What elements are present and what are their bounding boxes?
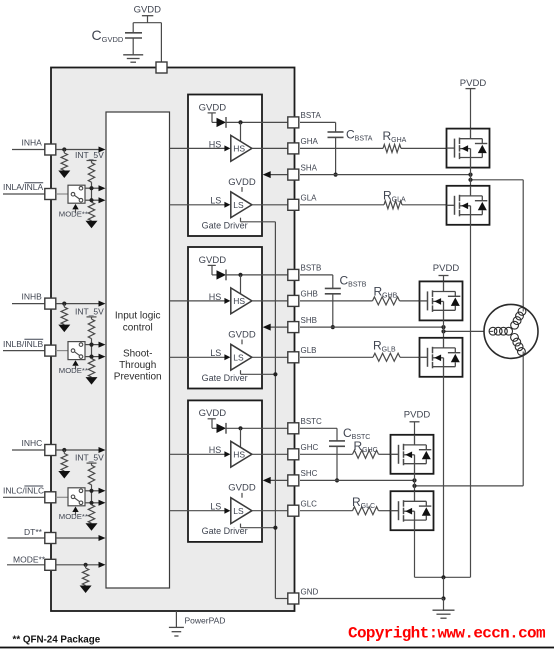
svg-text:INHA: INHA	[22, 137, 43, 147]
resistor RGLA	[300, 204, 384, 206]
wire BSTC	[300, 427, 337, 429]
wire INLC to mode switch	[56, 496, 68, 498]
svg-text:PowerPAD: PowerPAD	[185, 616, 226, 626]
svg-text:HS: HS	[233, 450, 245, 460]
svg-text:INHB: INHB	[22, 291, 43, 301]
wire INLB switch lower out	[85, 356, 100, 358]
svg-text:Gate Driver: Gate Driver	[202, 373, 248, 383]
capacitor CBSTA	[335, 122, 337, 132]
svg-text:SHC: SHC	[301, 469, 318, 478]
svg-text:DT**: DT**	[24, 527, 43, 537]
resistor RGHB	[300, 300, 373, 302]
bottom border line	[0, 647, 554, 649]
resistor pull-up INT_5V	[87, 462, 97, 464]
svg-text:GLB: GLB	[301, 346, 317, 355]
LS buffer C	[231, 498, 252, 524]
svg-text:PVDD: PVDD	[404, 410, 431, 421]
wire INLA switch lower out	[85, 199, 100, 201]
wire GHC output	[252, 453, 289, 455]
svg-text:GVDD: GVDD	[199, 408, 227, 419]
capacitor CGVDD	[125, 32, 142, 34]
power MOSFET high-side A	[447, 129, 490, 168]
ground arrow	[86, 523, 98, 531]
motor winding bottom-right	[511, 334, 519, 342]
wire FET A source to SHA	[470, 168, 472, 186]
motor winding top-right	[511, 321, 519, 329]
wire INHC to logic	[56, 449, 100, 451]
ground arrow	[58, 471, 70, 479]
wire FET C low source to gnd bus	[414, 530, 416, 577]
svg-text:LS: LS	[233, 200, 244, 210]
wire GHA output	[252, 147, 289, 149]
svg-text:GVDD: GVDD	[228, 483, 256, 494]
svg-text:INLB/INLB: INLB/INLB	[3, 339, 43, 349]
svg-text:INHC: INHC	[22, 438, 43, 448]
wire LS return A	[240, 218, 242, 222]
capacitor CBSTC	[336, 428, 338, 441]
wire INLB switch upper out	[85, 344, 100, 346]
svg-text:control: control	[123, 323, 153, 334]
wire LS input	[170, 204, 225, 206]
wire GVDD supply	[147, 16, 149, 23]
svg-text:LS: LS	[233, 506, 244, 516]
power MOSFET high-side C	[391, 435, 434, 474]
svg-text:Input logic: Input logic	[115, 311, 161, 322]
resistor pull-down INHB	[63, 304, 65, 308]
HS buffer C	[231, 441, 252, 467]
svg-text:GVDD: GVDD	[134, 5, 162, 16]
svg-text:Through: Through	[119, 360, 156, 371]
wire INLB to mode switch	[56, 350, 68, 352]
svg-text:LS: LS	[233, 353, 244, 363]
svg-text:GVDD: GVDD	[228, 329, 256, 340]
wire BSTA from diode	[226, 121, 289, 123]
ground arrow	[86, 221, 98, 229]
wire FET B low source to gnd bus	[443, 377, 445, 578]
wire GLA output	[252, 204, 289, 206]
wire SHC sense into driver	[271, 479, 290, 481]
capacitor CBSTB	[332, 275, 334, 289]
ground arrow	[58, 171, 70, 179]
wire INHB to logic	[56, 303, 100, 305]
wire FET C source to SHC	[414, 474, 416, 491]
gate driver block C	[188, 400, 262, 542]
pin GLB	[288, 352, 299, 363]
svg-text:INT_5V: INT_5V	[75, 150, 104, 160]
wire INLA switch upper out	[85, 187, 100, 189]
svg-text:PVDD: PVDD	[460, 78, 487, 89]
input logic control block	[106, 112, 170, 588]
wire phase A to motor	[471, 179, 524, 181]
pin GLC	[288, 505, 299, 516]
gate driver block A	[188, 95, 262, 237]
resistor pull-down	[88, 505, 94, 524]
wire PVDD	[414, 422, 416, 435]
bootstrap diode	[211, 419, 213, 429]
wire MODE to logic	[56, 564, 100, 566]
wire GHB output	[252, 300, 289, 302]
svg-text:MODE**: MODE**	[59, 512, 88, 521]
LS buffer B	[231, 344, 252, 370]
IC gate-driver body (QFN-24)	[51, 68, 295, 612]
svg-text:GLA: GLA	[301, 194, 318, 203]
svg-text:HS: HS	[233, 296, 245, 306]
mode control arrow	[72, 204, 78, 210]
svg-text:GND: GND	[301, 587, 319, 596]
wire PVDD	[470, 89, 472, 129]
svg-text:INT_5V: INT_5V	[75, 453, 104, 463]
svg-text:GHA: GHA	[301, 137, 319, 146]
wire BSTA	[300, 121, 336, 123]
mode select switch INLA	[68, 185, 85, 203]
resistor pull-down INHA	[63, 150, 65, 154]
ground arrow	[86, 377, 98, 385]
resistor pull-down	[88, 359, 94, 378]
wire SHA	[300, 174, 471, 176]
svg-text:GLC: GLC	[301, 500, 318, 509]
wire SHA sense into driver	[271, 174, 290, 176]
wire GND	[443, 577, 445, 598]
HS buffer A	[231, 135, 252, 161]
svg-text:Shoot-: Shoot-	[123, 349, 152, 360]
pin GLA	[288, 199, 299, 210]
ground arrow	[80, 586, 92, 594]
wire SHB	[300, 326, 444, 328]
PowerPAD ground	[175, 611, 177, 627]
pin SHA	[288, 169, 299, 180]
pin GVDD (IC top)	[156, 62, 167, 73]
wire INLC switch upper out	[85, 490, 100, 492]
pin BSTB	[288, 269, 299, 280]
motor winding left	[505, 327, 513, 335]
wire BSTB from diode	[226, 274, 289, 276]
HS buffer B	[231, 288, 252, 314]
pin BSTC	[288, 423, 299, 434]
resistor RGLC	[300, 510, 353, 512]
wire low-side sources common	[415, 576, 471, 578]
resistor pull-down INHC	[63, 450, 65, 454]
resistor RGHC	[300, 453, 353, 455]
wire phase B to motor	[444, 330, 490, 332]
wire HS input	[170, 453, 225, 455]
svg-text:Gate Driver: Gate Driver	[202, 526, 248, 536]
svg-text:GVDD: GVDD	[199, 255, 227, 266]
wire BSTC from diode	[226, 427, 289, 429]
ground	[123, 54, 143, 56]
bootstrap diode	[211, 113, 213, 123]
wire LS return B	[240, 370, 242, 374]
svg-text:INLC/INLC: INLC/INLC	[3, 486, 44, 496]
svg-text:INLA/INLA: INLA/INLA	[3, 182, 43, 192]
pin BSTA	[288, 117, 299, 128]
svg-text:INT_5V: INT_5V	[75, 306, 104, 316]
ground	[443, 599, 445, 610]
svg-text:BSTC: BSTC	[301, 417, 323, 426]
resistor pull-down	[88, 202, 94, 221]
mode select switch INLC	[68, 488, 85, 506]
wire SHC	[300, 479, 415, 481]
wire DT to logic	[56, 537, 100, 539]
svg-text:MODE**: MODE**	[13, 554, 46, 564]
svg-text:GVDD: GVDD	[199, 102, 227, 113]
pin GHC	[288, 449, 299, 460]
wire INLA to mode switch	[56, 193, 68, 195]
wire LS input	[170, 356, 225, 358]
pin SHC	[288, 475, 299, 486]
wire FET A low source to gnd bus	[470, 225, 472, 578]
mode control arrow	[72, 507, 78, 513]
resistor pull-up INT_5V	[87, 316, 97, 318]
svg-text:BSTB: BSTB	[301, 264, 322, 273]
svg-text:PVDD: PVDD	[433, 263, 460, 274]
pin GHB	[288, 295, 299, 306]
bootstrap diode	[211, 265, 213, 275]
wire INHA to logic	[56, 149, 100, 151]
wire HS input	[170, 147, 225, 149]
ground arrow	[58, 325, 70, 333]
gate driver block B	[188, 247, 262, 389]
resistor RGHA	[300, 147, 383, 149]
motor (3-phase BLDC)	[484, 304, 538, 358]
svg-text:GHC: GHC	[301, 443, 319, 452]
wire INLC switch lower out	[85, 502, 100, 504]
pin SHB	[288, 322, 299, 333]
svg-text:MODE**: MODE**	[59, 210, 88, 219]
svg-text:HS: HS	[233, 144, 245, 154]
power MOSFET low-side C	[391, 491, 434, 530]
svg-text:BSTA: BSTA	[301, 111, 322, 120]
svg-text:** QFN-24 Package: ** QFN-24 Package	[13, 635, 101, 646]
LS buffer A	[231, 192, 252, 218]
power MOSFET low-side B	[420, 338, 463, 377]
power MOSFET high-side B	[420, 281, 463, 320]
wire BSTB	[300, 274, 333, 276]
wire FET B source to SHB	[443, 320, 445, 337]
svg-text:GHB: GHB	[301, 290, 318, 299]
wire LS input	[170, 510, 225, 512]
svg-text:GVDD: GVDD	[228, 177, 256, 188]
resistor pull-up INT_5V	[87, 160, 97, 162]
svg-text:MODE**: MODE**	[59, 366, 88, 375]
pin GHA	[288, 143, 299, 154]
mode select switch INLB	[68, 342, 85, 360]
wire PVDD	[443, 276, 445, 282]
wire internal GND return bus	[274, 222, 276, 599]
svg-text:SHA: SHA	[301, 163, 318, 172]
svg-text:Copyright:www.eccn.com: Copyright:www.eccn.com	[348, 625, 546, 643]
wire GLB output	[252, 356, 289, 358]
svg-text:SHB: SHB	[301, 316, 317, 325]
wire LS return C	[240, 524, 242, 528]
wire SHB sense into driver	[271, 326, 290, 328]
wire phase C to motor	[415, 485, 524, 487]
svg-text:Prevention: Prevention	[114, 372, 162, 383]
svg-text:Gate Driver: Gate Driver	[202, 220, 248, 230]
power MOSFET low-side A	[447, 186, 490, 225]
resistor pull-down MODE	[85, 565, 87, 568]
resistor RGLB	[300, 356, 373, 358]
wire GLC output	[252, 510, 289, 512]
wire HS input	[170, 300, 225, 302]
pin GND	[288, 593, 299, 604]
mode control arrow	[72, 360, 78, 366]
